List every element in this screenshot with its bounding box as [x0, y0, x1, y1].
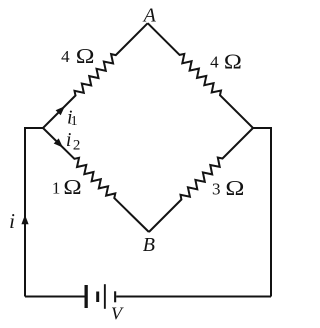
- svg-text:1: 1: [71, 114, 78, 129]
- wire right branch: corner to right rail and down: [253, 128, 271, 297]
- svg-text:V: V: [111, 304, 124, 324]
- resistor R3 1ohm bottom-left arm: [43, 128, 149, 232]
- wire bottom left to battery: [25, 296, 85, 298]
- svg-text:i: i: [66, 129, 72, 151]
- battery plate long left: [85, 285, 88, 308]
- svg-text:Ω: Ω: [63, 176, 81, 199]
- svg-text:Ω: Ω: [76, 45, 95, 69]
- svg-text:A: A: [142, 4, 157, 26]
- battery plate short right: [114, 291, 116, 302]
- svg-text:Ω: Ω: [225, 177, 244, 200]
- arrow current i2: [54, 138, 63, 147]
- svg-text:2: 2: [73, 137, 81, 153]
- svg-text:3: 3: [212, 179, 221, 198]
- arrow current i on left rail: [21, 215, 28, 225]
- resistor R4 3ohm bottom-right arm: [149, 128, 253, 232]
- svg-text:i: i: [9, 209, 15, 233]
- svg-text:1: 1: [52, 178, 61, 197]
- svg-text:4: 4: [61, 47, 70, 66]
- resistor R1 4ohm top-left arm: [43, 23, 148, 128]
- svg-text:B: B: [143, 234, 155, 256]
- resistor R2 4ohm top-right arm: [148, 23, 253, 128]
- svg-text:Ω: Ω: [224, 50, 242, 73]
- battery plate long inner-right: [104, 284, 106, 309]
- battery plate short inner-left: [96, 292, 99, 303]
- wire bottom battery to right: [116, 296, 271, 298]
- svg-text:4: 4: [210, 52, 219, 71]
- wire left branch: corner to left rail and down: [25, 128, 43, 297]
- arrow current i1: [56, 106, 65, 115]
